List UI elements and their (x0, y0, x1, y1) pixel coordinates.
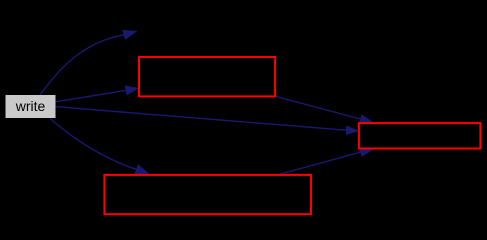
svg-text:write: write (15, 98, 46, 114)
arrowhead into node C bottom-left (359, 148, 374, 157)
wire: edge write -> hidden top node (curved) (40, 35, 124, 95)
wire: edge write -> node B (top middle box) (55, 90, 125, 101)
arrowhead into node B (125, 85, 139, 95)
arrowhead into node C top-left (359, 114, 374, 123)
arrowhead into node C left edge (346, 125, 360, 135)
arrowhead into node D top edge (134, 164, 150, 174)
wire: edge write -> node D (bottom box, curved) (50, 119, 136, 170)
wire: edge node B -> node C (276, 96, 360, 119)
arrowhead into hidden top node (122, 30, 137, 40)
node B: top middle box (truncated node, red border) (139, 57, 275, 96)
wire: edge node D -> node C (280, 152, 360, 174)
node write (current function, grey) (6, 95, 56, 118)
node D: bottom box (truncated node, red border) (104, 175, 311, 214)
node C: right box (truncated node, red border) (359, 123, 481, 148)
wire: edge write -> node C (right box) (55, 107, 346, 131)
